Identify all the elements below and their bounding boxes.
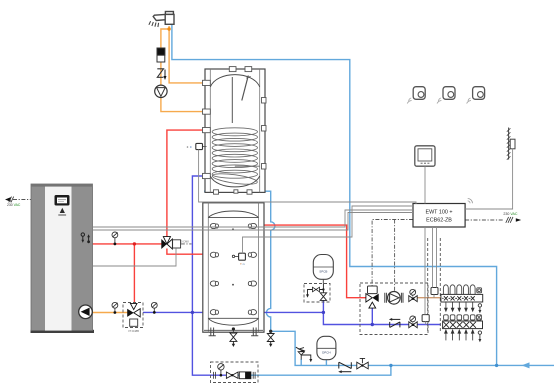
svg-text:0 CM8: 0 CM8 xyxy=(181,240,189,244)
svg-text:ECB62-ZB: ECB62-ZB xyxy=(426,218,452,224)
svg-text:SPCB: SPCB xyxy=(319,269,327,273)
svg-text:VT-D48B: VT-D48B xyxy=(128,329,139,333)
svg-text:EWT 100 +: EWT 100 + xyxy=(425,209,452,215)
svg-text:230 VAC: 230 VAC xyxy=(7,203,21,207)
svg-text:230 VAC: 230 VAC xyxy=(503,212,518,216)
svg-text:T-G: T-G xyxy=(240,262,246,266)
svg-text:DPCH: DPCH xyxy=(322,350,331,354)
